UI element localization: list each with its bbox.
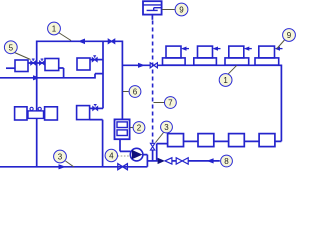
- callout circle 4: [105, 149, 117, 161]
- bypass tiny valve left: [30, 107, 33, 110]
- right manifold radiator unit 3: [225, 46, 249, 65]
- wire: R4 return pipe: [90, 120, 103, 167]
- mid-left radiator pair right: [45, 107, 58, 120]
- wire: X-valve to bottom: [152, 150, 154, 161]
- leader for label 9 top: [162, 9, 175, 11]
- svg-text:3: 3: [58, 153, 63, 162]
- bypass tiny valve right: [38, 107, 41, 110]
- wire: right block down pipe V4: [275, 65, 282, 142]
- wire: riser V3: [121, 41, 123, 120]
- callout circle 5: [4, 41, 17, 54]
- leader for label 9 right: [277, 40, 285, 49]
- unit 2 arrow: [213, 47, 221, 51]
- right manifold radiator unit 4: [255, 46, 279, 65]
- expansion tank stem: [151, 15, 153, 20]
- wire: left riser V1: [36, 41, 38, 167]
- valve on branch at dashed line: [150, 63, 157, 68]
- callout circle 6: [129, 86, 141, 98]
- wire: riser V2: [102, 41, 104, 109]
- wire: right manifold pipe: [157, 64, 281, 66]
- leader for label 5: [15, 53, 31, 60]
- leader lines: [15, 10, 285, 168]
- svg-text:5: 5: [9, 43, 14, 52]
- leader for label 3 upper: [156, 133, 164, 143]
- leader for label 1 left: [59, 33, 72, 41]
- wire: elevator feed: [157, 144, 168, 161]
- callout circle 7: [165, 97, 177, 109]
- wire: check-valve to gate-valve: [172, 160, 176, 162]
- flow arrow on makeup line: [207, 158, 214, 163]
- valve on return main: [118, 164, 128, 170]
- flow arrow on ground-floor pipe: [33, 75, 40, 80]
- flow arrow on return main: [59, 164, 67, 169]
- callout circle 3 (lower): [54, 150, 67, 163]
- valve on top main: [108, 39, 114, 43]
- svg-text:2: 2: [137, 124, 142, 133]
- check valve (open half): [165, 158, 172, 164]
- flow arrow on branch pipe: [138, 63, 145, 68]
- leader for label 2: [130, 127, 133, 129]
- unit 4 arrow: [275, 47, 283, 51]
- bottom row radiator D: [259, 134, 275, 147]
- callout circle 9 (right): [283, 29, 296, 42]
- wire: R2 drop pipe: [59, 68, 64, 78]
- right manifold radiator unit 1: [163, 46, 186, 65]
- leader for label 3 lower: [66, 161, 75, 167]
- wire: bottom return main: [0, 166, 147, 168]
- wire: top supply main: [37, 40, 123, 42]
- wire: makeup line to label 8: [188, 160, 220, 162]
- wire: R4 feed pipe: [90, 107, 103, 109]
- svg-text:9: 9: [179, 6, 184, 15]
- expansion tank signal pipe (dashed): [152, 21, 154, 143]
- svg-text:4: 4: [109, 152, 114, 161]
- expansion tank: [143, 1, 162, 14]
- radiator R2: [45, 59, 59, 71]
- callout circle 1 (right): [219, 74, 232, 87]
- unit 1 arrow: [181, 47, 189, 51]
- wire: radiator row1 connecting pipe: [28, 62, 45, 64]
- unit 3 arrow: [244, 47, 252, 51]
- valve K3 (radiator R3): [92, 56, 97, 62]
- bottom row radiator C: [229, 134, 245, 147]
- control box U2: [115, 119, 130, 139]
- callout circle 9 (top): [175, 3, 188, 16]
- wire: left stub: [6, 67, 15, 69]
- leader for label 7: [154, 102, 165, 104]
- svg-text:1: 1: [223, 76, 228, 85]
- valve K1 (radiator row1 left): [31, 59, 36, 65]
- wire: pump outlet: [143, 155, 148, 167]
- bottom row radiator B: [198, 134, 214, 147]
- svg-text:1: 1: [52, 25, 57, 34]
- callout circle 3 (upper): [161, 121, 173, 133]
- right manifold radiator unit 2: [194, 46, 217, 65]
- bottom row radiator A (elevator): [168, 134, 184, 147]
- leader for label 1 right: [228, 65, 237, 74]
- wire: ground-floor pipe: [0, 74, 103, 79]
- wire: R3 valve pipe: [90, 59, 103, 61]
- radiator R4: [77, 106, 90, 120]
- wire: branch to right block: [122, 64, 150, 66]
- wire: box2 to pump: [120, 139, 131, 151]
- svg-text:6: 6: [133, 88, 138, 97]
- valve K4 (radiator R4): [93, 105, 98, 111]
- flow arrow on top main (left): [78, 39, 85, 45]
- leader for label 4 (dotted): [118, 155, 131, 157]
- gate valve on makeup line: [176, 158, 188, 164]
- valve K2 (radiator row1 right): [40, 59, 45, 65]
- callout circle 8: [221, 155, 233, 167]
- svg-text:9: 9: [287, 31, 292, 40]
- mid-left radiator pair left: [15, 107, 27, 120]
- X-valve on expansion pipe: [150, 143, 154, 150]
- wire: makeup branch: [147, 160, 157, 162]
- callout circle 1 (left): [48, 22, 61, 35]
- svg-text:7: 7: [168, 99, 173, 108]
- leader for label 6: [123, 91, 129, 93]
- radiator R3: [77, 58, 90, 70]
- radiator R1: [15, 60, 28, 72]
- pump P1: [130, 148, 143, 161]
- callout circle 2: [133, 122, 145, 134]
- mid-left bypass bar: [28, 111, 44, 119]
- svg-text:3: 3: [164, 123, 169, 132]
- wire: bottom row connectors: [184, 140, 260, 142]
- svg-text:8: 8: [224, 157, 229, 166]
- check valve (filled half): [158, 158, 165, 164]
